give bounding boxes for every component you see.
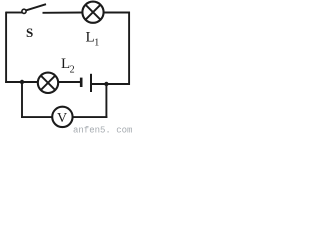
switch S pivot	[22, 9, 26, 13]
wire switch to lamp L1	[43, 12, 83, 14]
wire left edge	[5, 12, 7, 83]
wire right edge	[128, 12, 130, 85]
battery cell positive plate	[90, 74, 92, 92]
svg-text:anfen5. com: anfen5. com	[73, 126, 132, 136]
svg-text:2: 2	[70, 65, 75, 76]
lamp L2	[38, 73, 58, 93]
svg-text:1: 1	[94, 38, 99, 49]
node B junction	[104, 82, 108, 86]
voltmeter V	[52, 107, 72, 127]
wire voltmeter right to corner	[73, 116, 108, 118]
switch S blade	[26, 4, 46, 10]
node A junction	[20, 80, 24, 84]
wire node A down to voltmeter row	[21, 82, 23, 118]
wire lamp L1 to top-right corner	[104, 12, 130, 14]
wire bottom-right to battery	[92, 83, 130, 85]
wire top-left segment	[6, 12, 22, 14]
wire lamp L2 to left edge	[5, 81, 38, 83]
svg-text:V: V	[57, 111, 67, 126]
lamp L1	[82, 2, 103, 23]
wire corner up to node B	[105, 84, 107, 118]
battery cell negative plate	[80, 78, 83, 87]
wire to voltmeter left	[21, 116, 52, 118]
wire battery to lamp L2	[58, 81, 80, 83]
svg-text:S: S	[26, 25, 33, 40]
